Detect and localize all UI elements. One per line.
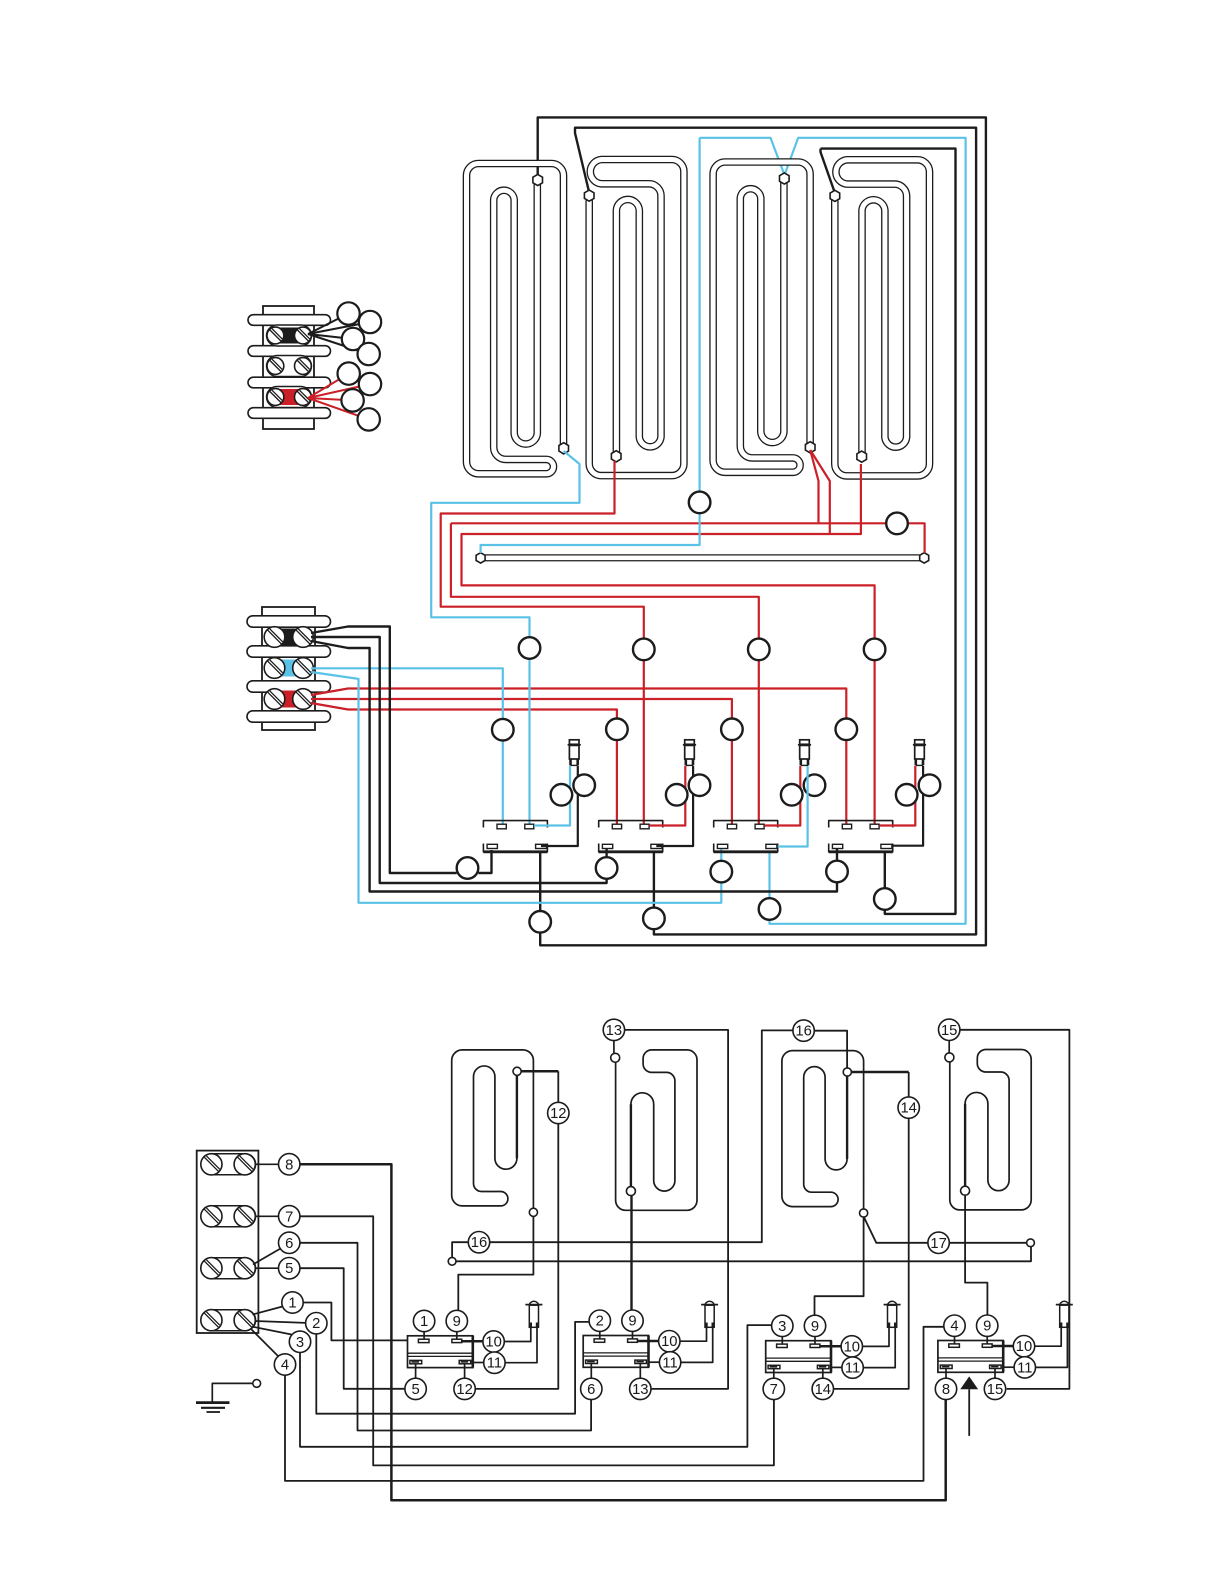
- circled 15 above element4: [939, 1019, 960, 1040]
- stub to circle 9: [632, 1332, 634, 1339]
- wire element2 nodeB to switch2 circle9: [630, 1196, 632, 1311]
- broil element right node: [920, 553, 929, 563]
- tab upper-left: [777, 1344, 788, 1347]
- TB1 red wire-nut fan: [308, 374, 349, 398]
- tab upper-right (9): [628, 1339, 638, 1342]
- element4 schematic node B: [961, 1186, 970, 1195]
- heating element 3 (tube serpentine): [713, 162, 810, 472]
- grommet G6: [519, 637, 541, 659]
- lower bracket: [483, 844, 547, 852]
- svg-text:4: 4: [950, 1319, 958, 1335]
- circled label bottom-right: [630, 1378, 651, 1399]
- grommet G8: [606, 719, 628, 741]
- svg-text:9: 9: [628, 1314, 636, 1330]
- svg-text:3: 3: [778, 1319, 786, 1335]
- switch upper bracket: [829, 821, 893, 828]
- blue jumper lamp3 to switch3 bracket: [778, 766, 808, 847]
- lower bracket: [714, 844, 778, 852]
- circled label 9: [446, 1310, 467, 1331]
- element2 schematic node A: [611, 1053, 620, 1062]
- circled label 9: [977, 1315, 998, 1336]
- wire nut: [358, 343, 380, 365]
- stub to top-left circle: [599, 1332, 601, 1339]
- lower bracket: [599, 844, 663, 852]
- wire element1 nodeB to switch1 circle9: [458, 1216, 533, 1310]
- heating element 4 (tube serpentine): [835, 160, 930, 476]
- circled label 10: [1013, 1336, 1034, 1357]
- schematic element 1 serpentine: [452, 1050, 534, 1208]
- element1 terminal node B: [559, 443, 569, 454]
- red feed: TB2 to switch2 tab1: [311, 703, 617, 719]
- grommet under switch2: [643, 908, 665, 930]
- nested border wire blue (element3 nodeA - switch3): [700, 138, 785, 175]
- circled label 11: [1014, 1357, 1035, 1378]
- nested border wire 3 (element4 nodeA - switch4): [821, 149, 835, 193]
- svg-text:15: 15: [987, 1382, 1003, 1398]
- stub to circle 10: [462, 1340, 483, 1343]
- circled 5 at TB: [279, 1258, 300, 1279]
- stub to bottom-right circle: [464, 1364, 466, 1378]
- red wire: element2 nodeB to switch2 tab2: [441, 461, 644, 639]
- stub to circle 9: [456, 1332, 458, 1339]
- element4 schematic node A: [945, 1053, 954, 1062]
- grommet G10: [836, 719, 858, 741]
- wire nut: [337, 302, 359, 324]
- element1 terminal node A: [533, 174, 543, 185]
- terminal block TB2 body: [262, 607, 315, 730]
- lower tab1: [717, 844, 727, 848]
- svg-text:9: 9: [453, 1314, 461, 1330]
- lamp grommet pair: [781, 784, 803, 806]
- element4 terminal node A: [830, 190, 840, 201]
- circled label bottom-left: [405, 1378, 426, 1399]
- svg-text:6: 6: [285, 1236, 293, 1252]
- svg-text:4: 4: [281, 1358, 289, 1374]
- circled 1 at TB: [282, 1292, 303, 1313]
- blue wire: TB2 to switch3 lower tab1: [311, 672, 721, 903]
- lower tab2: [536, 844, 547, 848]
- wire 12: element1 to switch1: [521, 1070, 558, 1073]
- lower tab2: [651, 844, 662, 848]
- element2 schematic node B: [626, 1187, 635, 1196]
- lamp grommet pair: [551, 784, 573, 806]
- TB1 mounting bar: [248, 377, 331, 388]
- element3 schematic node A: [843, 1068, 851, 1076]
- circled label bottom-right: [984, 1378, 1005, 1399]
- grommet G3: [633, 639, 655, 661]
- circled label bottom-right: [454, 1378, 475, 1399]
- lamp grommet pair: [666, 784, 688, 806]
- TB2 pair3 link red: [279, 691, 299, 708]
- element1 schematic node A: [513, 1067, 521, 1075]
- stub to circle 10: [637, 1340, 658, 1343]
- ground wire and symbol: [253, 1380, 261, 1388]
- svg-text:11: 11: [662, 1355, 677, 1371]
- TB2 screw pair: [264, 658, 285, 679]
- svg-text:11: 11: [487, 1356, 502, 1372]
- tab lower-left: [586, 1360, 598, 1363]
- circled label 10: [841, 1336, 862, 1357]
- outer border wire (L1 net: element1 nodeA - switch1): [538, 117, 986, 945]
- indicator lamp: [685, 740, 695, 745]
- bottom terminal block body: [197, 1151, 259, 1333]
- black wire: TB2 to switch4 lower tab1: [311, 641, 837, 892]
- stub to circle 11: [1003, 1366, 1014, 1368]
- svg-text:15: 15: [941, 1023, 957, 1039]
- grommet on border wire under switch1: [529, 911, 551, 933]
- circled 16 left: [468, 1232, 489, 1253]
- TB2 screw pair: [264, 689, 285, 710]
- lamp wire from 11: [681, 1328, 713, 1363]
- wire element3 nodeB to switch3 circle9: [815, 1217, 864, 1315]
- grommet G11: [457, 857, 479, 879]
- bottom TB screw pair pill: [201, 1310, 256, 1331]
- tab lower-left: [410, 1360, 422, 1363]
- tab upper-right (9): [982, 1344, 992, 1347]
- stub to circle 11: [649, 1361, 660, 1363]
- indicator lamp: [1060, 1301, 1069, 1304]
- circled label bottom-left: [935, 1378, 956, 1399]
- wire nut: [338, 362, 360, 384]
- wire 15: element4 to switch4: [948, 1041, 950, 1054]
- stub to bottom-right circle: [639, 1364, 641, 1379]
- tab lower-right: [635, 1360, 647, 1363]
- lamp wire from 10: [1035, 1328, 1062, 1347]
- stub to bottom-right circle: [822, 1369, 824, 1378]
- grommet G14: [826, 861, 848, 883]
- upper tab1: [612, 824, 621, 829]
- lower tab2: [766, 844, 777, 848]
- stub to circle 9: [814, 1337, 816, 1344]
- circled 8 at TB: [279, 1154, 300, 1175]
- circled 3 at TB: [289, 1331, 310, 1352]
- circled label 11: [484, 1352, 505, 1373]
- stub to circle 11: [473, 1362, 484, 1364]
- element4 terminal node B: [857, 451, 867, 462]
- svg-text:10: 10: [844, 1339, 860, 1355]
- indicator lamp: [915, 740, 925, 745]
- circled 2 at TB: [306, 1313, 327, 1334]
- TB2 mounting bar: [247, 616, 331, 627]
- grommet G1: [689, 492, 711, 514]
- lamp grommet pair: [896, 784, 918, 806]
- blue wire: broil left node riser: [481, 513, 700, 553]
- lower tab1: [832, 844, 842, 848]
- stub to circle 9: [986, 1337, 988, 1344]
- wire 1: TB to switch1 tab: [253, 1307, 283, 1315]
- lower tab1: [487, 844, 497, 848]
- svg-text:13: 13: [632, 1382, 648, 1398]
- svg-text:13: 13: [606, 1023, 622, 1039]
- red feed: TB2 to switch3 tab1: [311, 699, 732, 719]
- circled label 10: [483, 1331, 504, 1352]
- svg-text:11: 11: [1017, 1360, 1032, 1376]
- schematic element 3 serpentine: [782, 1051, 864, 1209]
- svg-text:10: 10: [1016, 1339, 1032, 1355]
- svg-text:8: 8: [285, 1157, 293, 1173]
- schematic element 4 serpentine: [950, 1050, 1031, 1210]
- circled label top-left: [944, 1315, 965, 1336]
- element2 terminal node B: [611, 451, 621, 462]
- TB2 mounting bar: [247, 646, 331, 657]
- element1 schematic node B: [529, 1208, 537, 1216]
- TB1 black wire-nut fan: [308, 314, 349, 335]
- wire nut: [358, 408, 380, 430]
- element3 terminal node B: [805, 442, 815, 453]
- grommet G9: [721, 719, 743, 741]
- tab upper-right (9): [452, 1339, 462, 1342]
- lamp wire from 10: [680, 1328, 707, 1342]
- tab upper-left: [949, 1344, 960, 1347]
- wire 6: TB to switch2: [253, 1249, 281, 1265]
- wire 8: TB to switch4: [256, 1163, 279, 1165]
- svg-text:14: 14: [815, 1382, 831, 1398]
- TB1 pair1 link (black): [267, 325, 312, 346]
- grommet under switch4: [874, 888, 896, 910]
- terminal block TB1 body: [263, 306, 314, 429]
- svg-text:2: 2: [312, 1316, 320, 1332]
- lamp wire from 10: [504, 1328, 531, 1342]
- lamp wire left: [879, 766, 915, 826]
- TB1 screw pair: [267, 358, 284, 375]
- blue wire: element1 nodeB to switch1 tab2: [431, 451, 579, 637]
- switch upper bracket: [483, 821, 547, 828]
- circled label top-left: [772, 1315, 793, 1336]
- upper tab2: [755, 824, 764, 829]
- svg-text:6: 6: [587, 1382, 595, 1398]
- svg-text:12: 12: [550, 1106, 566, 1122]
- stub to bottom-right circle: [994, 1369, 996, 1379]
- grommet G5: [864, 639, 886, 661]
- indicator lamp: [529, 1301, 538, 1304]
- wire 16 net: terminal to element3 nodeA: [448, 1257, 456, 1265]
- circled 17: [928, 1232, 949, 1253]
- tab lower-left: [768, 1365, 780, 1368]
- circled 13 above element2: [603, 1019, 624, 1040]
- TB1 mounting bar: [248, 315, 331, 326]
- wire nut: [359, 311, 381, 333]
- wire 13: element2 to switch2: [613, 1041, 615, 1054]
- blue feed: TB2 to switch1 tab1: [311, 668, 503, 719]
- TB1 screw pair: [267, 327, 284, 344]
- circled label 10: [659, 1331, 680, 1352]
- circled label top-left: [413, 1310, 434, 1331]
- arrow marker at switch4: [960, 1376, 978, 1389]
- TB2 screw pair: [264, 627, 285, 648]
- stub to circle 10: [992, 1345, 1013, 1348]
- TB2 pair2 link blue: [279, 660, 299, 677]
- svg-text:5: 5: [411, 1382, 419, 1398]
- grommet G12: [596, 857, 618, 879]
- indicator lamp: [569, 740, 579, 745]
- upper tab1: [842, 824, 851, 829]
- energy regulator switch body: [766, 1341, 831, 1373]
- svg-text:5: 5: [285, 1261, 293, 1277]
- circled 12 on wire: [548, 1102, 569, 1123]
- lower bracket: [829, 844, 893, 852]
- wire 14: element3 to switch3: [851, 1071, 908, 1074]
- stub to bottom-left circle: [415, 1364, 417, 1378]
- red bus B: element4 nodeB to switch4 tab2: [810, 450, 830, 534]
- svg-text:10: 10: [485, 1335, 501, 1351]
- wire 17: element3 nodeB to connector: [864, 1217, 928, 1243]
- lamp wire right: [893, 766, 923, 846]
- TB1 mounting bar: [248, 408, 331, 419]
- circled 7 at TB: [279, 1206, 300, 1227]
- upper tab1: [497, 824, 506, 829]
- svg-text:12: 12: [456, 1382, 472, 1398]
- stub to bottom-left circle: [590, 1364, 592, 1379]
- upper tab2: [640, 824, 649, 829]
- tab lower-left: [940, 1365, 952, 1368]
- lower tab2: [881, 844, 892, 848]
- heating element 1 (tube serpentine): [467, 164, 564, 474]
- stub to top-left circle: [781, 1337, 783, 1344]
- TB1 mounting bar: [248, 346, 331, 357]
- lamp wire from 11: [1036, 1328, 1068, 1368]
- circled 16 at element3: [793, 1020, 814, 1041]
- svg-text:16: 16: [795, 1024, 811, 1040]
- bottom TB screw pair pill: [201, 1154, 256, 1175]
- lamp wire from 11: [505, 1328, 537, 1363]
- red bus A: element3 nodeB / broil right node to switch3 tab2: [810, 450, 818, 523]
- wire 5: TB to switch1: [256, 1267, 279, 1269]
- TB2 mounting bar: [247, 711, 331, 722]
- element3 schematic node B: [860, 1209, 868, 1217]
- red feed: TB2 to switch4 tab1: [311, 689, 846, 719]
- svg-text:8: 8: [942, 1382, 950, 1398]
- bottom TB screw pair pill: [201, 1206, 256, 1227]
- energy regulator switch body: [938, 1341, 1003, 1373]
- wire 2: TB to switch2: [255, 1321, 306, 1323]
- grommet G4: [748, 639, 770, 661]
- circled 6 at TB: [279, 1232, 300, 1253]
- stub to bottom-left circle: [945, 1369, 947, 1379]
- stub to circle 11: [831, 1366, 842, 1368]
- wire nut: [341, 389, 363, 411]
- circled label top-left: [589, 1310, 610, 1331]
- svg-text:1: 1: [288, 1296, 296, 1312]
- TB1 screw pair: [267, 389, 284, 406]
- TB1 pair2 link (white): [267, 356, 312, 377]
- stub to top-left circle: [423, 1332, 425, 1339]
- lamp wire left: [764, 766, 800, 826]
- tab lower-right: [990, 1365, 1002, 1368]
- element2 terminal node A: [584, 190, 594, 201]
- tab upper-left: [594, 1339, 605, 1342]
- switch upper bracket: [599, 821, 663, 828]
- tab upper-right (9): [810, 1344, 820, 1347]
- svg-text:17: 17: [930, 1236, 946, 1252]
- tab lower-right: [459, 1360, 471, 1363]
- svg-text:11: 11: [845, 1361, 860, 1377]
- indicator lamp: [705, 1301, 714, 1304]
- circled 4 at TB: [274, 1354, 295, 1375]
- svg-text:7: 7: [285, 1209, 293, 1225]
- lamp wire left: [649, 766, 685, 826]
- nested border wire 2 (element2 nodeA - switch2): [575, 128, 976, 935]
- connector terminal 17: [1027, 1239, 1035, 1247]
- energy regulator switch body: [583, 1336, 648, 1368]
- element3 terminal node A: [780, 173, 790, 184]
- jumper wire 16-17 nets: [456, 1247, 1031, 1262]
- long broil element (tube): [486, 554, 919, 561]
- switch upper bracket: [714, 821, 778, 828]
- black wire: TB2 to switch2 lower tab1: [311, 637, 607, 883]
- svg-text:2: 2: [596, 1314, 604, 1330]
- TB2 pair1 link black: [279, 629, 299, 646]
- circled label 11: [659, 1352, 680, 1373]
- TB2 mounting bar: [247, 681, 331, 692]
- circled 14 on wire: [898, 1097, 919, 1118]
- svg-text:16: 16: [471, 1235, 487, 1251]
- svg-text:1: 1: [420, 1314, 428, 1330]
- stub to top-left circle: [954, 1337, 956, 1344]
- wire element4 nodeB to switch4 circle9: [965, 1195, 987, 1316]
- lamp wire right: [541, 766, 578, 846]
- TB1 pair3 link (red): [267, 387, 312, 408]
- lamp wire from 10: [863, 1328, 890, 1347]
- lower tab1: [602, 844, 612, 848]
- energy regulator switch body: [408, 1336, 473, 1368]
- tab lower-right: [817, 1365, 829, 1368]
- circled label bottom-left: [581, 1378, 602, 1399]
- wire 4: TB to switch4: [251, 1329, 279, 1357]
- broil element left node: [476, 553, 485, 563]
- lamp wire from 11: [863, 1328, 895, 1368]
- wire 3: TB to switch3: [252, 1327, 292, 1335]
- wire nut: [359, 373, 381, 395]
- black wire: TB2 to switch1 lower tab1: [311, 627, 457, 874]
- circled label bottom-left: [763, 1378, 784, 1399]
- upper tab1: [727, 824, 736, 829]
- wire 7: TB to switch3: [256, 1215, 279, 1217]
- stub to bottom-left circle: [773, 1369, 775, 1378]
- grommet G13: [711, 861, 733, 883]
- circled label 9: [804, 1315, 825, 1336]
- heating element 2 (tube serpentine): [589, 160, 684, 476]
- lamp wire right: [656, 766, 693, 846]
- circled label 9: [622, 1310, 643, 1331]
- svg-text:14: 14: [900, 1101, 916, 1117]
- schematic element 2 serpentine: [616, 1050, 697, 1210]
- bottom TB screw pair pill: [201, 1258, 256, 1279]
- circled label bottom-right: [812, 1378, 833, 1399]
- grommet G2 on bus A: [886, 513, 908, 535]
- svg-text:3: 3: [296, 1335, 304, 1351]
- svg-text:10: 10: [661, 1334, 677, 1350]
- stub to circle 10: [820, 1345, 841, 1348]
- svg-text:9: 9: [983, 1319, 991, 1335]
- upper tab2: [870, 824, 879, 829]
- circled label 11: [842, 1357, 863, 1378]
- wire nut: [342, 328, 364, 350]
- grommet under switch3: [759, 898, 781, 920]
- tab upper-left: [418, 1339, 429, 1342]
- indicator lamp: [888, 1301, 897, 1304]
- svg-text:7: 7: [770, 1382, 778, 1398]
- svg-text:9: 9: [811, 1319, 819, 1335]
- grommet G7: [492, 719, 514, 741]
- upper tab2: [525, 824, 534, 829]
- indicator lamp: [800, 740, 810, 745]
- lamp wire left: [534, 766, 570, 826]
